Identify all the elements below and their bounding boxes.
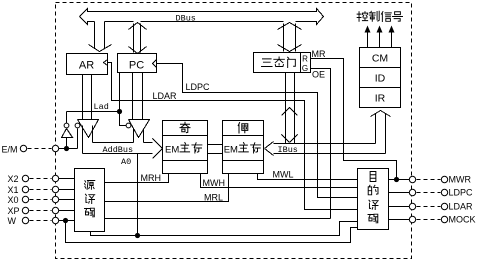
wire A0 feed to destination decoder <box>91 222 358 236</box>
wire E/M to driver 1 bubble <box>77 129 79 149</box>
dashed wire X1 <box>30 189 52 191</box>
control signal arrow <box>391 31 393 48</box>
wire MRL <box>105 174 229 202</box>
wire E/M <box>59 148 78 150</box>
wire MR <box>311 59 397 178</box>
driver 2 enable bubble <box>126 123 131 128</box>
terminal MOCK outer <box>441 216 447 222</box>
svg-text:EM: EM <box>165 145 179 156</box>
source decoder (yuan yi ma) <box>75 169 105 232</box>
svg-text:LDPC: LDPC <box>449 188 474 198</box>
wire LDAR out <box>389 206 410 208</box>
wire Lad <box>67 111 118 113</box>
svg-text:MRH: MRH <box>141 173 162 183</box>
wire X1 into source decoder <box>59 189 75 191</box>
tri-state gate R/G cell divider <box>300 53 302 73</box>
svg-text:X2: X2 <box>8 174 19 184</box>
terminal MWR outer <box>441 176 447 182</box>
wire LDPC <box>157 64 358 198</box>
terminal X0 outer <box>22 196 28 202</box>
register AR <box>67 54 108 75</box>
svg-text:LDAR: LDAR <box>153 91 178 101</box>
label tai <box>274 57 285 67</box>
label control signals (kong zhi xin hao) <box>357 12 368 22</box>
wire AR out right <box>91 75 93 120</box>
svg-text:R: R <box>302 55 308 64</box>
svg-text:XP: XP <box>8 206 20 216</box>
wire PC bottom to Lad node <box>119 73 121 110</box>
wire odd-even link upper <box>208 144 223 146</box>
register PC <box>118 54 157 73</box>
wire AddBus hollow bus <box>82 126 84 154</box>
outer dashed system boundary <box>56 3 412 259</box>
svg-text:G: G <box>302 64 308 73</box>
svg-text:E/M: E/M <box>2 145 18 155</box>
node A0 junction <box>135 233 140 238</box>
svg-text:IBus: IBus <box>278 145 298 155</box>
terminal W outer <box>22 217 28 223</box>
svg-text:ID: ID <box>375 73 386 85</box>
svg-text:MWR: MWR <box>449 175 472 185</box>
wire X0 into source decoder <box>59 199 75 201</box>
wire IBus riser to IR left <box>375 114 377 144</box>
terminal X2 outer <box>22 175 28 181</box>
wire MWH <box>201 174 358 188</box>
dashed wire MWR <box>417 179 441 181</box>
terminal LDAR on boundary <box>409 203 415 209</box>
memory block odd (qi EM) <box>163 121 208 174</box>
node E/M junction <box>64 146 69 151</box>
wire DBus to tri-state gate hollow double arrow <box>283 24 285 52</box>
IBus arrowhead into even box <box>265 142 274 156</box>
svg-text:MWH: MWH <box>203 178 226 188</box>
label qi <box>180 122 190 132</box>
svg-text:MOCK: MOCK <box>449 215 476 225</box>
terminal LDAR outer <box>441 203 447 209</box>
dashed wire LDPC <box>417 192 441 194</box>
terminal E/M outer <box>20 145 26 151</box>
svg-text:LDPC: LDPC <box>186 82 211 92</box>
terminal LDPC outer <box>441 189 447 195</box>
terminal X1 outer <box>22 186 28 192</box>
wire W feed to destination decoder <box>66 223 358 243</box>
svg-text:EM: EM <box>224 145 238 156</box>
svg-text:CM: CM <box>372 53 388 65</box>
terminal XP on boundary <box>52 207 58 213</box>
label men <box>288 57 296 67</box>
PC input arrowhead <box>153 60 157 68</box>
terminal MOCK on boundary <box>409 216 415 222</box>
wire inverter out <box>66 112 68 124</box>
wire MRH <box>105 174 169 183</box>
node W junction <box>63 218 68 223</box>
svg-text:X1: X1 <box>8 185 19 195</box>
driver 1 enable bubble <box>75 123 80 128</box>
svg-text:AR: AR <box>79 60 94 72</box>
terminal X2 on boundary <box>52 175 58 181</box>
wire AR out left <box>82 75 84 120</box>
wire gate-IBus left <box>285 73 287 144</box>
control signal arrow <box>367 31 369 48</box>
terminal X0 on boundary <box>52 196 58 202</box>
svg-text:MRL: MRL <box>204 193 223 203</box>
terminal E/M on boundary <box>52 145 58 151</box>
svg-text:IR: IR <box>375 93 386 105</box>
wire LDPC out <box>389 192 410 194</box>
inverter bubble <box>64 123 69 128</box>
inverter E/M <box>62 129 73 138</box>
memory block even (ou EM) <box>223 121 264 174</box>
wire PC out left <box>132 73 134 120</box>
wire DBus to PC hollow double arrow <box>133 24 135 53</box>
driver buffer 2 <box>129 120 150 138</box>
svg-text:Lad: Lad <box>94 102 109 112</box>
dashed wire LDAR <box>417 206 441 208</box>
svg-text:W: W <box>8 216 17 226</box>
svg-text:LDAR: LDAR <box>449 202 474 212</box>
svg-text:DBus: DBus <box>176 14 196 24</box>
svg-text:X0: X0 <box>8 195 19 205</box>
node Lad junction <box>117 109 122 114</box>
AR input arrowhead <box>104 60 108 66</box>
terminal XP outer <box>22 207 28 213</box>
svg-text:OE: OE <box>312 70 325 80</box>
label san <box>262 59 273 67</box>
dashed wire XP <box>30 210 52 212</box>
svg-text:MR: MR <box>312 49 326 59</box>
wire OE <box>311 69 331 219</box>
wire inverter in <box>66 138 68 147</box>
wire X2 into source decoder <box>59 178 75 180</box>
dashed wire X2 <box>30 178 52 180</box>
tri-state gate (san tai men) <box>254 53 311 73</box>
svg-text:A0: A0 <box>121 157 131 167</box>
svg-text:PC: PC <box>129 60 144 72</box>
terminal X1 on boundary <box>52 186 58 192</box>
wire W into source decoder <box>59 220 75 222</box>
destination decoder (mu di yi ma) <box>358 169 389 230</box>
control store CM/ID/IR stack <box>360 48 401 108</box>
wire DBus to AR hollow down arrow <box>94 22 96 49</box>
wire MOCK out <box>389 219 410 221</box>
dashed wire W <box>30 220 52 222</box>
terminal W on boundary <box>52 217 58 223</box>
wire MWL <box>258 174 358 180</box>
dashed wire MOCK <box>417 219 441 221</box>
dashed wire X0 <box>30 199 52 201</box>
terminal LDPC on boundary <box>409 189 415 195</box>
driver buffer 1 <box>78 120 99 138</box>
wire Lad to driver 2 bubble <box>120 114 127 126</box>
wire odd-even link lower <box>208 153 223 155</box>
wire DBus hollow bus outline <box>80 9 324 25</box>
control signal arrow <box>379 31 381 48</box>
wire IBus riser to IR right <box>385 114 387 154</box>
wire LDAR <box>108 63 358 210</box>
AddBus arrowhead <box>153 139 163 159</box>
dashed wire E/M <box>28 148 52 150</box>
wire PC out right <box>142 73 144 120</box>
label ou <box>238 123 248 133</box>
gate-IBus up arrowhead <box>282 108 298 116</box>
terminal MWR on boundary <box>409 176 415 182</box>
wire IBus hollow bus <box>274 143 376 145</box>
wire MWR out <box>389 179 410 181</box>
wire XP into source decoder <box>59 210 75 212</box>
wire gate-IBus right <box>294 73 296 144</box>
IR feed arrowhead <box>371 111 391 117</box>
svg-text:MWL: MWL <box>273 170 294 180</box>
svg-text:AddBus: AddBus <box>103 145 134 155</box>
wire A0 <box>137 154 139 236</box>
wire source decoder to OE <box>105 218 331 220</box>
gate-IBus down arrowhead <box>282 135 298 143</box>
node MWR junction <box>394 177 399 182</box>
